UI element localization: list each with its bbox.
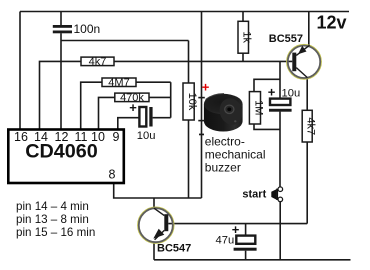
resistor 4M7 bbox=[102, 77, 136, 89]
wire pin10 to 470k bbox=[99, 97, 115, 128]
svg-text:1k: 1k bbox=[241, 31, 253, 43]
wire switch to ground bbox=[279, 202, 281, 260]
buzzer BZ1 electro-mechanical bbox=[198, 79, 265, 174]
resistor 1M bbox=[249, 92, 264, 124]
wire 4k7b bottom vertical bbox=[306, 142, 308, 224]
wire pin9 elbow bbox=[118, 118, 139, 129]
capacitor C3 10u (base node) bbox=[268, 85, 300, 112]
svg-text:BC557: BC557 bbox=[269, 33, 303, 45]
wire BC557 collector vertical bbox=[306, 77, 308, 110]
svg-text:4k7: 4k7 bbox=[305, 117, 317, 135]
wire 1M top elbow bbox=[254, 79, 280, 91]
buzzer minus bbox=[199, 134, 204, 136]
svg-text:start: start bbox=[242, 189, 266, 201]
wire 47u top bbox=[245, 224, 247, 236]
pin timing list bbox=[16, 200, 95, 239]
resistor 10k bbox=[183, 83, 198, 120]
switch S1 start bbox=[242, 187, 282, 202]
wire 1k bottom bbox=[242, 53, 244, 61]
wire right timing vertical bbox=[170, 82, 172, 118]
svg-text:100n: 100n bbox=[74, 22, 101, 36]
wire BC547 emitter vertical bbox=[153, 243, 155, 260]
transistor Q2 BC547 bbox=[138, 208, 191, 255]
wire 10k top vertical bbox=[188, 41, 190, 84]
wire left rail to pin 16 bbox=[19, 12, 21, 129]
wire pin14 to 4k7 bbox=[40, 61, 82, 128]
capacitor C4 47u bbox=[216, 222, 257, 251]
wire pin11 to 4M7 bbox=[81, 82, 102, 128]
resistor 4k7 right bbox=[302, 110, 316, 142]
wire C3 bottom to switch bbox=[279, 112, 281, 187]
svg-text:10k: 10k bbox=[186, 93, 198, 111]
svg-text:BC547: BC547 bbox=[157, 242, 191, 254]
wire 100n branch lower to pin 12 bbox=[60, 33, 62, 128]
wire node row y40 bbox=[61, 40, 189, 42]
transistor Q1 BC557 bbox=[269, 33, 321, 78]
svg-text:8: 8 bbox=[109, 168, 116, 182]
wire top 12v rail bbox=[20, 11, 349, 13]
svg-text:electro-: electro- bbox=[205, 135, 245, 149]
svg-text:pin 15 – 16 min: pin 15 – 16 min bbox=[16, 226, 95, 239]
wire 4k7 to BC557 base bbox=[114, 60, 292, 62]
svg-text:+: + bbox=[202, 79, 210, 94]
wire 470k right bbox=[149, 96, 171, 98]
svg-text:+: + bbox=[268, 85, 276, 100]
wire buzzer vertical bbox=[201, 12, 203, 199]
svg-text:buzzer: buzzer bbox=[205, 161, 241, 175]
svg-text:12v: 12v bbox=[317, 13, 347, 33]
buzzer terminal ticks bbox=[198, 97, 205, 99]
svg-text:47u: 47u bbox=[216, 235, 235, 247]
wire pin8 elbow bbox=[114, 184, 202, 198]
capacitor C1 100n bbox=[53, 25, 72, 33]
svg-text:4M7: 4M7 bbox=[108, 77, 129, 89]
wire 10k bottom vertical bbox=[188, 120, 190, 198]
svg-text:CD4060: CD4060 bbox=[25, 141, 98, 163]
svg-text:pin 14 – 4 min: pin 14 – 4 min bbox=[16, 200, 89, 213]
capacitor C2 10u (pin9) bbox=[129, 100, 155, 142]
svg-text:9: 9 bbox=[113, 130, 120, 144]
resistor 470k bbox=[115, 92, 149, 104]
svg-text:10u: 10u bbox=[282, 88, 301, 100]
resistor 4k7 (pin14) bbox=[81, 56, 114, 68]
IC U1 CD4060 bbox=[8, 130, 124, 184]
wire 4M7 right bbox=[136, 81, 171, 83]
wire BC547 collector vertical bbox=[153, 198, 155, 208]
wire C2 right to vertical bbox=[153, 117, 171, 119]
svg-text:mechanical: mechanical bbox=[205, 148, 266, 162]
svg-text:pin 13 – 8 min: pin 13 – 8 min bbox=[16, 213, 89, 226]
resistor 1k bbox=[238, 21, 253, 53]
wire base node vertical bbox=[279, 61, 281, 98]
wire 100n branch upper bbox=[60, 12, 62, 26]
svg-text:+: + bbox=[129, 100, 137, 115]
wire BC557 emitter vertical bbox=[308, 12, 310, 45]
wire 1M bottom elbow bbox=[254, 124, 280, 129]
svg-text:4k7: 4k7 bbox=[89, 56, 107, 68]
svg-text:1M: 1M bbox=[252, 100, 264, 115]
wire 47u bottom bbox=[245, 251, 247, 260]
wire base row BC547 bbox=[168, 223, 307, 225]
wire ground rail bbox=[154, 259, 351, 261]
svg-text:10u: 10u bbox=[137, 130, 156, 142]
wire 1k top bbox=[242, 12, 244, 22]
